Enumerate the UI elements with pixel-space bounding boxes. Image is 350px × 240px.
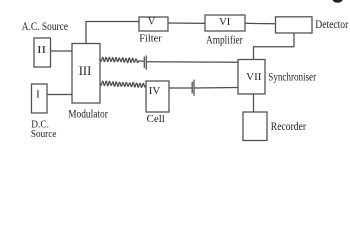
svg-text:Amplifier: Amplifier bbox=[206, 35, 243, 47]
svg-text:Cell: Cell bbox=[147, 113, 165, 125]
svg-text:Modulator: Modulator bbox=[68, 109, 108, 121]
svg-text:VII: VII bbox=[246, 71, 262, 83]
svg-text:Detector: Detector bbox=[315, 19, 348, 31]
svg-text:III: III bbox=[79, 64, 92, 78]
svg-text:A.C. Source: A.C. Source bbox=[22, 19, 68, 33]
svg-text:I: I bbox=[36, 89, 40, 101]
svg-text:VI: VI bbox=[219, 17, 231, 28]
svg-text:Recorder: Recorder bbox=[271, 121, 306, 133]
svg-text:Source: Source bbox=[31, 128, 57, 140]
svg-text:V: V bbox=[148, 17, 156, 28]
svg-text:Synchroniser: Synchroniser bbox=[268, 69, 316, 83]
svg-text:Filter: Filter bbox=[139, 32, 162, 44]
svg-text:IV: IV bbox=[149, 85, 161, 97]
svg-text:II: II bbox=[37, 44, 46, 56]
